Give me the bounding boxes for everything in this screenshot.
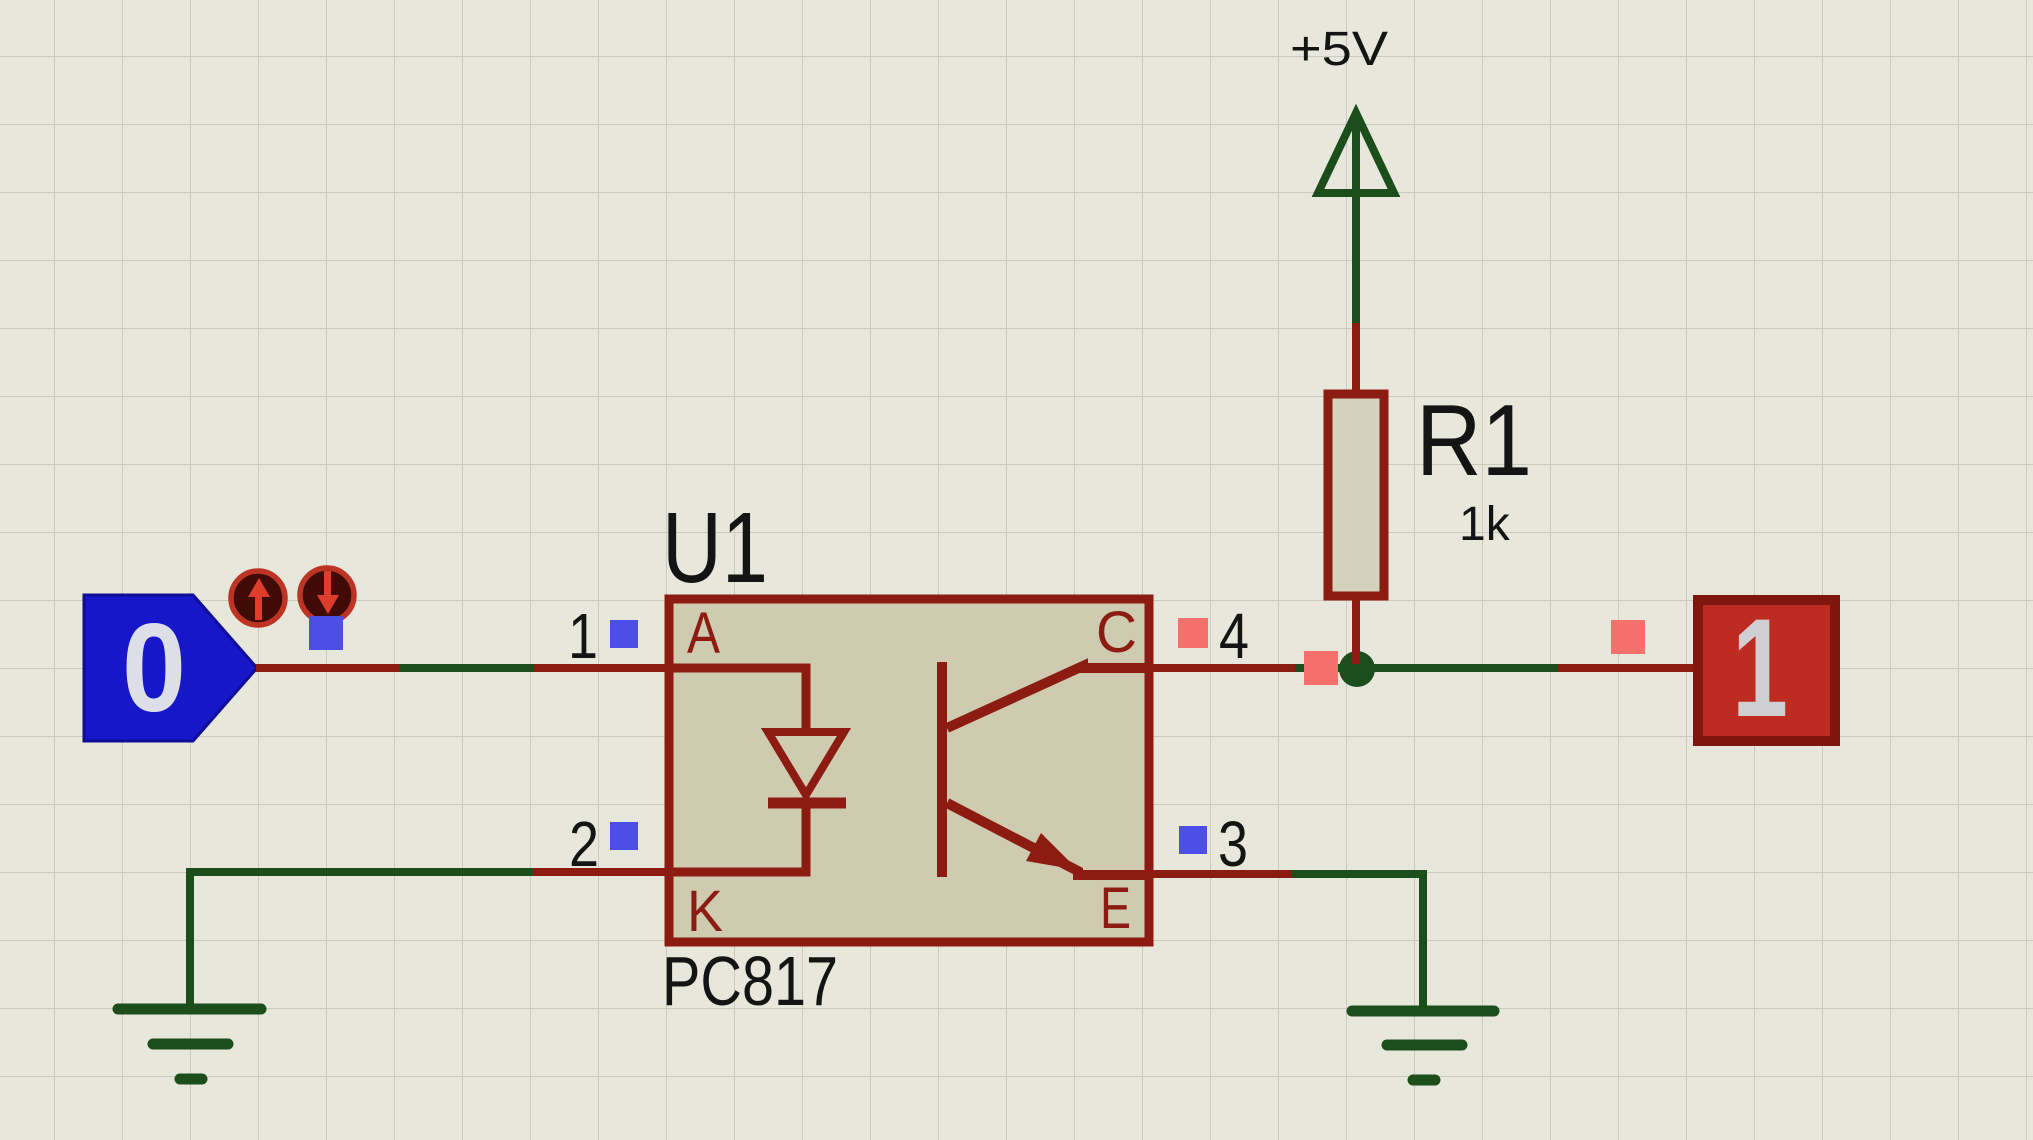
LED anode internal wire	[669, 668, 806, 732]
svg-text:PC817: PC817	[662, 942, 838, 1020]
phototransistor collector	[947, 666, 1149, 728]
wire: U1 pin 4 stub (red)	[1149, 664, 1295, 672]
svg-text:0: 0	[122, 599, 186, 738]
LED cathode bar	[768, 798, 846, 809]
svg-text:E: E	[1100, 876, 1131, 941]
wire: terminal 1 pin stub (red)	[1557, 664, 1695, 672]
phototransistor base bar	[937, 662, 947, 877]
pin 4 node marker (pink square)	[1178, 618, 1208, 648]
wire: terminal 0 pin stub (red)	[256, 664, 400, 672]
svg-text:1: 1	[1732, 589, 1788, 746]
svg-text:1k: 1k	[1459, 498, 1511, 551]
phototransistor emitter	[947, 803, 1149, 875]
ground (right)	[1352, 1011, 1494, 1080]
svg-text:2: 2	[569, 808, 599, 880]
svg-text:U1: U1	[662, 492, 768, 604]
wire: pin 2 net green segment	[190, 872, 533, 1007]
svg-text:R1: R1	[1416, 385, 1532, 497]
emitter arrow head	[1026, 833, 1078, 870]
resistor R1 body	[1328, 394, 1384, 596]
svg-text:1: 1	[568, 600, 598, 672]
pin 2 node marker (blue square)	[610, 822, 638, 850]
junction node dot	[1339, 651, 1375, 687]
svg-text:K: K	[687, 879, 723, 944]
node marker pink square on wire	[1304, 651, 1338, 685]
power +5V wire (green)	[1352, 115, 1360, 323]
resistor R1 top stub (red)	[1352, 323, 1360, 394]
terminal 1 (output logic probe square)	[1698, 589, 1835, 746]
resistor R1 bottom stub (red)	[1352, 596, 1360, 664]
power +5V arrow symbol	[1318, 113, 1394, 193]
pin 3 node marker (blue square)	[1179, 826, 1207, 854]
wire: pin 3 net green segment	[1291, 874, 1423, 1007]
wire: U1 pin 2 stub (red)	[533, 868, 666, 876]
svg-text:A: A	[687, 601, 720, 666]
svg-text:C: C	[1096, 600, 1137, 665]
svg-text:4: 4	[1219, 600, 1249, 672]
LED cathode internal wire	[669, 803, 806, 872]
wire: U1 pin 3 stub (red)	[1149, 870, 1291, 878]
pin 1 node marker (blue square)	[610, 620, 638, 648]
wire: U1 pin 1 stub (red)	[533, 664, 666, 672]
node marker blue square at input net	[309, 616, 343, 650]
svg-text:3: 3	[1218, 808, 1248, 880]
terminal 0 (input logic state pentagon)	[84, 595, 257, 741]
wire: input net segment (green)	[400, 664, 533, 672]
node marker pink square at output	[1611, 620, 1645, 654]
toggle button up-arrow	[231, 571, 285, 625]
wire: output net green segment	[1295, 664, 1557, 672]
optocoupler U1 body PC817	[669, 599, 1149, 944]
toggle button down-arrow	[300, 568, 354, 622]
svg-text:+5V: +5V	[1290, 23, 1388, 76]
LED triangle (anode->cathode, pointing down)	[768, 732, 844, 795]
ground (left)	[118, 1009, 261, 1079]
